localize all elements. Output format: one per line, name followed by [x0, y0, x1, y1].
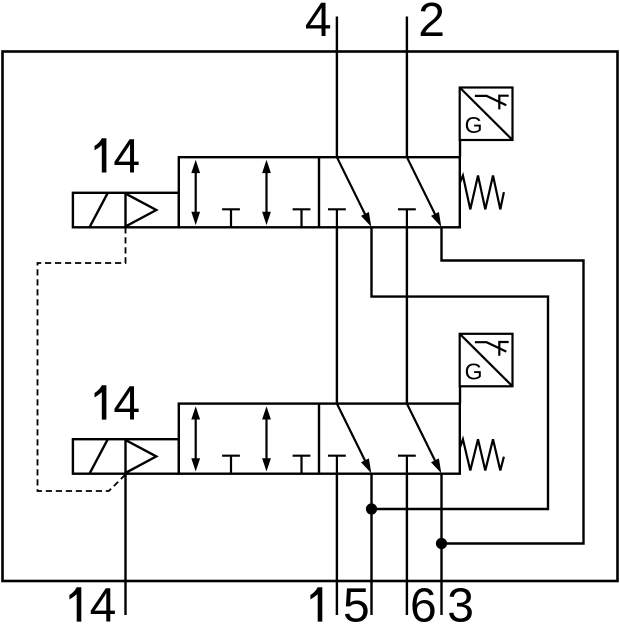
junction node A	[366, 503, 377, 514]
valve V1 body	[179, 157, 460, 227]
valve V1 blocked port T2	[293, 209, 311, 227]
solenoid Y2	[73, 439, 179, 474]
valve V1 diagonal flow arrow 4	[407, 157, 441, 227]
valve V2 body	[179, 404, 460, 474]
wire port 6	[406, 474, 408, 615]
svg-text:5: 5	[343, 580, 370, 626]
svg-text:6: 6	[410, 580, 437, 626]
return spring V1	[460, 176, 504, 210]
valve V1 blocked port T3	[328, 209, 346, 227]
pilot line dashed Y1 to V2	[38, 227, 126, 491]
wire G2 to valve V2	[459, 386, 461, 403]
valve V2 blocked port T3	[328, 456, 346, 474]
wire valve V1 output to node B	[442, 227, 584, 543]
wire port 2 riser	[406, 17, 408, 158]
pilot label 14 bottom	[69, 580, 116, 626]
valve V1 diagonal flow arrow 3	[337, 157, 371, 227]
valve V2 blocked port T1	[222, 456, 240, 474]
svg-text:4: 4	[90, 580, 117, 626]
svg-text:4: 4	[305, 0, 332, 47]
svg-text:2: 2	[418, 0, 445, 47]
port label 1	[310, 587, 322, 621]
svg-text:3: 3	[447, 580, 474, 626]
wire valve V1 port to valve V2 (line 2 side)	[406, 227, 408, 403]
valve V1 flow arrow 1	[191, 160, 200, 225]
svg-text:4: 4	[113, 378, 140, 431]
svg-text:G: G	[465, 358, 483, 384]
valve V2 diagonal flow arrow 4	[407, 404, 441, 474]
valve V2 flow arrow 1	[191, 406, 200, 471]
wire port 4 riser	[336, 17, 338, 158]
wire G1 to valve V1	[459, 140, 461, 157]
wire port 1	[336, 474, 338, 615]
pilot label 14 upper	[95, 131, 141, 184]
valve V2 blocked port T2	[293, 456, 311, 474]
valve V1 blocked port T1	[222, 209, 240, 227]
svg-text:4: 4	[113, 131, 140, 184]
wire port 3	[440, 474, 442, 615]
wire port 5	[370, 474, 372, 615]
valve V1 blocked port T4	[398, 209, 416, 227]
valve V2 flow arrow 2	[262, 406, 271, 471]
valve V2 blocked port T4	[398, 456, 416, 474]
svg-text:G: G	[465, 112, 483, 138]
junction node B	[436, 538, 447, 549]
limit switch box G2	[460, 334, 513, 387]
return spring V2	[460, 439, 504, 470]
limit switch box G1	[460, 88, 513, 141]
wire pilot port 14	[124, 474, 126, 615]
valve V1 flow arrow 2	[262, 160, 271, 225]
wire valve V1 output to node A	[372, 227, 549, 509]
solenoid Y1	[73, 193, 179, 228]
pilot label 14 lower	[95, 378, 141, 431]
wire valve V1 port to valve V2 (line 4 side)	[336, 227, 338, 403]
valve V2 diagonal flow arrow 3	[337, 404, 371, 474]
